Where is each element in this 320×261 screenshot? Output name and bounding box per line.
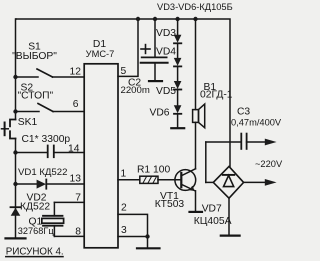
svg-text:VD3: VD3 bbox=[156, 28, 176, 39]
svg-text:C3: C3 bbox=[237, 106, 250, 117]
label S1 "ВЫБОР" bbox=[12, 42, 57, 62]
node top rail junction diode chain bbox=[175, 17, 179, 21]
svg-text:14: 14 bbox=[68, 143, 80, 154]
wire C3 net bbox=[206, 141, 241, 143]
svg-text:02ГД-1: 02ГД-1 bbox=[200, 90, 233, 101]
svg-text:C1* 3300p: C1* 3300p bbox=[22, 134, 71, 145]
ground emitter bbox=[190, 211, 203, 213]
svg-text:2: 2 bbox=[121, 202, 127, 213]
svg-text:6: 6 bbox=[73, 99, 79, 110]
bridge VD7 bbox=[213, 166, 243, 198]
svg-text:"ВЫБОР": "ВЫБОР" bbox=[12, 51, 57, 62]
svg-text:R1 100: R1 100 bbox=[137, 165, 170, 176]
diode VD2 bbox=[11, 207, 21, 216]
pin 5 wire bbox=[118, 19, 138, 76]
wire left rail lower bbox=[15, 139, 17, 239]
svg-text:VD3-VD6-КД105Б: VD3-VD6-КД105Б bbox=[157, 2, 233, 12]
svg-text:УМС-7: УМС-7 bbox=[86, 49, 115, 59]
node VD1 junction bbox=[13, 182, 17, 186]
svg-text:13: 13 bbox=[70, 174, 82, 185]
switch S2 bbox=[16, 104, 85, 112]
wire bridge bottom to ground bbox=[228, 198, 230, 234]
capacitor C1 bbox=[16, 146, 85, 158]
svg-text:VD5: VD5 bbox=[156, 86, 176, 97]
label VD2 КД522 bbox=[20, 193, 50, 213]
node S2 junction bbox=[13, 109, 17, 113]
wire left rail upper bbox=[15, 19, 18, 120]
svg-text:2200m: 2200m bbox=[121, 85, 150, 96]
svg-text:~220V: ~220V bbox=[255, 159, 283, 169]
svg-text:КЦ405А: КЦ405А bbox=[194, 216, 232, 227]
ground pins 2-3 bbox=[137, 247, 160, 249]
wire speaker branch lower bbox=[195, 122, 197, 168]
svg-text:КТ503: КТ503 bbox=[155, 199, 185, 210]
label B1 02ГД-1 bbox=[200, 82, 233, 101]
ground left rail bbox=[6, 237, 26, 239]
node C1 junction bbox=[13, 150, 17, 154]
wire speaker branch upper bbox=[195, 19, 197, 110]
crystal Q1 bbox=[42, 202, 84, 236]
label Q1 32768Гц bbox=[18, 217, 55, 236]
svg-text:3: 3 bbox=[121, 225, 127, 236]
ground bridge bbox=[221, 235, 240, 237]
svg-text:VD6: VD6 bbox=[150, 108, 170, 119]
svg-text:SK1: SK1 bbox=[18, 117, 38, 128]
wire C3 to bridge bbox=[205, 142, 207, 182]
label VD7 КЦ405А bbox=[194, 203, 232, 227]
diode VD6 bbox=[174, 90, 182, 128]
svg-text:VD4: VD4 bbox=[156, 47, 176, 58]
ground diode chain bbox=[171, 127, 184, 129]
node top rail junction speaker bbox=[193, 17, 197, 21]
svg-text:VD7: VD7 bbox=[202, 203, 222, 214]
svg-text:КД522: КД522 bbox=[20, 202, 50, 213]
svg-text:32768Гц: 32768Гц bbox=[18, 226, 55, 236]
pin 2 wire bbox=[118, 214, 148, 236]
capacitor C2 bbox=[141, 19, 168, 81]
op IC D1 УМС-7 body bbox=[84, 64, 118, 248]
label VT1 КТ503 bbox=[155, 191, 185, 210]
svg-text:"СТОП": "СТОП" bbox=[18, 91, 54, 102]
switch S1 bbox=[16, 69, 85, 77]
svg-text:8: 8 bbox=[75, 226, 81, 237]
wire bridge right to mains bbox=[244, 181, 266, 183]
label C2 2200m bbox=[121, 78, 150, 96]
wire junction to ground bbox=[147, 237, 149, 248]
diode VD4 bbox=[174, 43, 182, 66]
capacitor C3 bbox=[241, 134, 276, 149]
svg-text:7: 7 bbox=[75, 193, 81, 204]
pin 3 wire bbox=[118, 236, 148, 238]
transistor VT1 bbox=[175, 169, 196, 191]
label D1 УМС-7 bbox=[86, 39, 115, 59]
node S1 junction bbox=[13, 75, 17, 79]
svg-text:VD1 КД522: VD1 КД522 bbox=[18, 167, 67, 178]
resistor R1 bbox=[118, 176, 181, 183]
svg-text:5: 5 bbox=[121, 66, 127, 77]
label C3 0,47m/400V bbox=[231, 106, 282, 127]
node top rail junction pin5 bbox=[136, 17, 140, 21]
speaker B1 bbox=[193, 104, 205, 128]
diode VD1 bbox=[16, 180, 85, 189]
svg-text:0,47m/400V: 0,47m/400V bbox=[231, 118, 282, 128]
connector SK1 bbox=[2, 120, 16, 139]
node top rail junction C2 bbox=[153, 17, 157, 21]
wire emitter to ground bbox=[195, 191, 197, 211]
svg-text:12: 12 bbox=[70, 67, 82, 78]
node pins 2-3 junction bbox=[145, 234, 149, 238]
wire top rail bbox=[16, 19, 230, 166]
label S2 "СТОП" bbox=[18, 83, 54, 102]
diode VD5 bbox=[174, 66, 182, 89]
svg-text:РИСУНОК 4.: РИСУНОК 4. bbox=[6, 246, 64, 257]
diode VD3 bbox=[174, 19, 182, 43]
svg-text:1: 1 bbox=[121, 169, 127, 180]
